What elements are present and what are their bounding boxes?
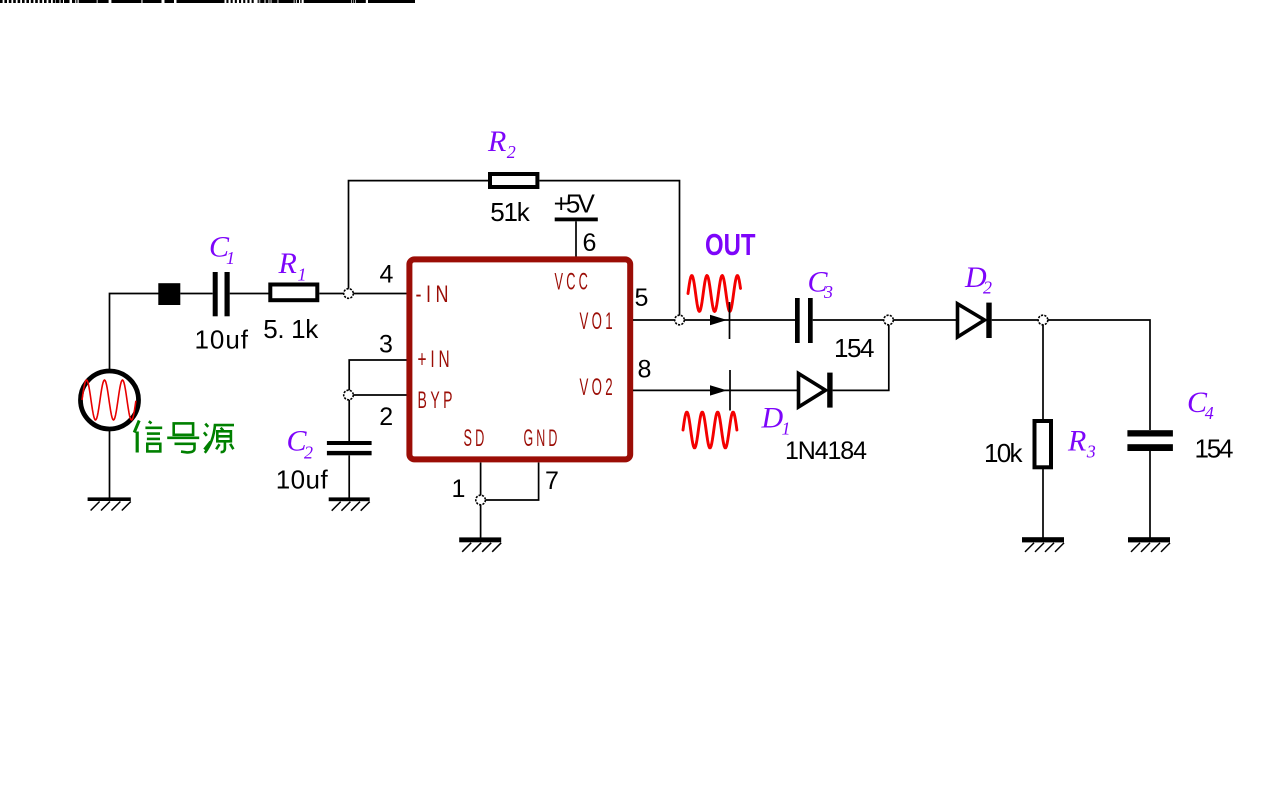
wire	[349, 181, 491, 289]
sine probe out2	[683, 412, 737, 448]
wire	[893, 319, 957, 321]
svg-text:R: R	[1067, 425, 1086, 458]
svg-text:GND: GND	[524, 425, 561, 452]
svg-text:2: 2	[304, 443, 313, 463]
resistor R1	[270, 285, 317, 301]
wire	[348, 455, 350, 497]
clipped text row at top	[0, 0, 415, 3]
svg-text:VO1: VO1	[580, 308, 617, 335]
wire	[353, 394, 406, 396]
svg-text:3: 3	[1086, 442, 1096, 462]
svg-text:+IN: +IN	[418, 346, 454, 373]
node E	[1038, 315, 1048, 325]
svg-text:5: 5	[635, 284, 649, 312]
node C	[476, 495, 486, 505]
svg-text:+5V: +5V	[554, 189, 596, 219]
node D	[884, 315, 894, 325]
wire	[180, 293, 212, 295]
capacitor C2	[327, 441, 372, 445]
svg-text:154: 154	[834, 333, 875, 363]
arrow	[710, 315, 727, 325]
svg-text:OUT: OUT	[705, 227, 756, 262]
wire	[633, 389, 799, 391]
arrow	[710, 385, 727, 395]
ground	[88, 497, 131, 501]
wire	[992, 319, 1038, 321]
svg-text:51k: 51k	[490, 197, 531, 227]
node B	[344, 390, 354, 400]
resistor R3	[1035, 421, 1052, 467]
wire	[539, 181, 679, 316]
node A	[344, 289, 354, 299]
svg-text:7: 7	[545, 467, 559, 495]
wire	[684, 319, 795, 321]
wire	[833, 325, 889, 391]
ground	[459, 537, 501, 542]
svg-text:1: 1	[452, 475, 466, 503]
svg-text:2: 2	[983, 278, 992, 298]
svg-text:10uf: 10uf	[276, 465, 329, 495]
wire	[1042, 467, 1044, 537]
op-amp U1 (LM4871 box)	[409, 259, 630, 459]
svg-text:10k: 10k	[984, 438, 1024, 468]
svg-text:1: 1	[226, 248, 235, 268]
svg-text:R: R	[487, 125, 506, 158]
wire	[348, 400, 350, 441]
svg-text:D: D	[761, 402, 784, 435]
resistor R2	[490, 174, 537, 187]
wire	[353, 293, 406, 295]
svg-text:VCC: VCC	[555, 269, 592, 296]
wire	[575, 221, 577, 257]
diode D2	[958, 304, 985, 337]
svg-text:5. 1k: 5. 1k	[263, 314, 319, 344]
wire	[480, 505, 482, 538]
ground	[1022, 537, 1064, 542]
wire	[319, 293, 344, 295]
wire	[230, 293, 270, 295]
wire	[480, 463, 482, 496]
svg-text:-IN: -IN	[416, 281, 454, 308]
svg-text:2: 2	[507, 142, 516, 162]
svg-text:8: 8	[637, 356, 651, 384]
sine probe out1	[688, 276, 741, 312]
svg-text:3: 3	[823, 282, 833, 302]
ground	[1128, 537, 1170, 542]
svg-text:6: 6	[583, 229, 597, 257]
capacitor C3	[795, 298, 800, 343]
wire	[349, 360, 406, 390]
wire	[110, 294, 159, 371]
wire	[486, 463, 539, 501]
svg-text:10uf: 10uf	[195, 324, 249, 354]
svg-text:VO2: VO2	[580, 374, 617, 401]
svg-text:2: 2	[379, 403, 393, 431]
svg-text:3: 3	[379, 331, 393, 359]
label 信号源	[134, 421, 234, 453]
wire	[633, 319, 675, 321]
wire	[109, 429, 111, 498]
capacitor C1	[213, 272, 218, 316]
svg-text:1: 1	[782, 418, 791, 438]
svg-text:1N4184: 1N4184	[785, 437, 867, 465]
wire	[813, 319, 884, 321]
wire	[1149, 451, 1151, 538]
diode D1	[799, 374, 826, 408]
svg-text:SD: SD	[464, 425, 488, 452]
signal source	[81, 371, 139, 429]
svg-text:BYP: BYP	[418, 387, 457, 414]
ground	[329, 497, 370, 501]
svg-text:4: 4	[1205, 403, 1214, 423]
svg-text:R: R	[278, 247, 297, 280]
node VO1	[675, 315, 685, 325]
svg-text:1: 1	[298, 265, 307, 285]
wire	[1048, 320, 1150, 430]
svg-text:154: 154	[1195, 434, 1234, 464]
connector square	[158, 283, 180, 305]
capacitor C4	[1127, 430, 1173, 436]
svg-text:4: 4	[379, 261, 393, 289]
wire	[1042, 325, 1044, 421]
